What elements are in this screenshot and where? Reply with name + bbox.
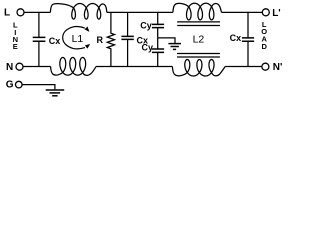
ground (right) [168,44,181,50]
svg-text:G: G [6,80,14,91]
capacitor Cx1 [33,12,46,66]
resistor R [107,12,114,66]
wire [22,85,55,90]
arrowhead bottom of L1 [85,44,90,49]
svg-text:Cx: Cx [230,33,242,43]
wire [23,66,50,68]
capacitor Cy1 [152,12,164,37]
svg-text:Cy: Cy [142,43,154,53]
inductor L1 top winding [50,4,107,20]
terminal G [15,81,22,88]
wire [107,11,173,13]
capacitor Cx2 [121,12,133,66]
svg-text:Cx: Cx [49,36,61,46]
wire [96,66,172,68]
svg-text:L': L' [272,8,281,19]
svg-text:N': N' [273,62,283,73]
wire [24,11,50,13]
svg-text:E: E [13,42,18,51]
svg-text:L2: L2 [193,33,205,45]
terminal N' [262,63,269,70]
capacitor Cy2 [152,38,164,67]
inductor L2 top winding [173,3,222,20]
terminal L' [262,9,269,16]
wire [225,66,262,68]
arrowhead top of L1 [84,27,89,32]
svg-text:D: D [261,42,267,51]
wire to ground [158,38,175,44]
capacitor Cx3 [242,12,254,66]
terminal L [17,9,24,16]
svg-text:L1: L1 [72,33,84,45]
choke L1 rotation arrow [63,27,85,49]
svg-text:Cy: Cy [140,21,152,31]
ground (left) [46,90,64,96]
svg-text:R: R [97,35,104,45]
label LINE [13,21,18,52]
label LOAD [261,20,267,51]
transformer core L2 [177,22,220,57]
inductor L1 bottom winding [51,57,96,75]
inductor L2 bottom winding [172,60,225,77]
terminal N [16,63,23,70]
svg-text:L: L [4,8,10,19]
wire [222,11,263,13]
svg-text:N: N [6,62,13,73]
